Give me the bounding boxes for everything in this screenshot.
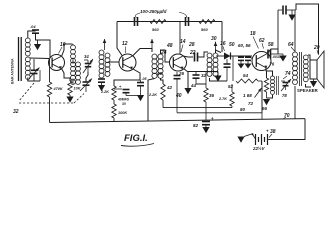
label 12 bbox=[122, 41, 128, 53]
resistor 54 bbox=[236, 73, 258, 83]
wire bbox=[161, 79, 164, 85]
svg-text:40MFD: 40MFD bbox=[118, 98, 130, 102]
switch bbox=[244, 133, 256, 139]
oscillator coil second column bbox=[76, 62, 81, 84]
wire bbox=[114, 69, 140, 86]
label 66 bbox=[262, 106, 268, 111]
svg-text:16: 16 bbox=[220, 41, 226, 47]
svg-text:74: 74 bbox=[285, 71, 291, 77]
wire bbox=[216, 50, 222, 53]
svg-text:46: 46 bbox=[156, 71, 163, 76]
trimmer 78 bbox=[281, 79, 291, 98]
wire bbox=[179, 22, 181, 54]
wire bbox=[308, 55, 310, 60]
wire bbox=[188, 71, 218, 73]
ground bbox=[214, 72, 221, 82]
svg-text:78: 78 bbox=[282, 93, 287, 98]
oscillator coil top bbox=[71, 44, 76, 63]
wire bbox=[117, 21, 222, 23]
label 24 bbox=[160, 50, 167, 56]
tuning slug arrow bbox=[103, 39, 107, 50]
diode 16 bbox=[216, 53, 252, 60]
wire bbox=[62, 44, 73, 57]
wire bbox=[62, 69, 71, 82]
label 62 bbox=[259, 38, 265, 49]
svg-text:72: 72 bbox=[248, 101, 254, 106]
label 20 bbox=[313, 45, 320, 55]
main bus bbox=[50, 119, 306, 123]
osc trimmer 32b bbox=[80, 72, 92, 92]
label SPEAKER bbox=[297, 88, 319, 93]
svg-text:82: 82 bbox=[193, 123, 199, 128]
wire bbox=[183, 56, 193, 57]
bypass cap 82 bbox=[193, 116, 214, 133]
transistor Q10 bbox=[49, 55, 65, 71]
ground bbox=[184, 88, 191, 94]
wire bbox=[117, 22, 122, 56]
svg-text:14: 14 bbox=[180, 39, 186, 45]
svg-text:100-250µµfd: 100-250µµfd bbox=[140, 9, 167, 14]
T2 bypass cap bbox=[98, 78, 105, 91]
label 64 bbox=[288, 42, 295, 51]
wire bbox=[161, 50, 170, 62]
capacitor C2 bbox=[186, 17, 189, 26]
ground bbox=[288, 10, 295, 21]
svg-text:50: 50 bbox=[229, 42, 235, 48]
svg-text:30: 30 bbox=[211, 36, 217, 42]
ground bbox=[310, 80, 317, 88]
wire bbox=[286, 9, 296, 11]
label 48 bbox=[166, 43, 173, 49]
wire bbox=[72, 79, 74, 85]
label 46 bbox=[156, 71, 163, 76]
svg-text:24: 24 bbox=[160, 50, 167, 56]
label 100-250uufd bbox=[135, 9, 187, 18]
cap .05 to ground bbox=[137, 77, 148, 101]
avc rail 2 bbox=[177, 112, 262, 114]
label 18 bbox=[250, 31, 259, 49]
label 10 bbox=[59, 42, 66, 54]
resistor 2.2K b bbox=[148, 84, 165, 108]
wire bbox=[28, 31, 36, 38]
ground bbox=[66, 97, 73, 103]
svg-text:.04: .04 bbox=[30, 24, 36, 29]
wire bbox=[277, 10, 279, 49]
IF transformer T3 bbox=[152, 54, 163, 78]
padder capacitor 34 bbox=[83, 54, 93, 73]
transistor Q18 bbox=[252, 52, 271, 71]
resistor 560a bbox=[150, 20, 166, 33]
label 14 bbox=[180, 39, 186, 52]
svg-text:34: 34 bbox=[84, 54, 89, 59]
svg-text:12: 12 bbox=[122, 41, 128, 47]
svg-text:10K: 10K bbox=[74, 87, 81, 91]
wire bbox=[267, 95, 273, 98]
wire bbox=[30, 57, 49, 60]
svg-text:32: 32 bbox=[13, 109, 19, 115]
resistor 560b bbox=[199, 20, 215, 33]
label 50 bbox=[229, 42, 235, 48]
wire bbox=[306, 84, 312, 87]
tuning capacitor 32a bbox=[29, 59, 40, 81]
avc rail 1 bbox=[163, 107, 232, 109]
tuning slug arrow bbox=[214, 42, 218, 50]
svg-text:38: 38 bbox=[270, 129, 276, 135]
antenna secondary coil L2 bbox=[25, 57, 30, 79]
svg-text:52: 52 bbox=[228, 84, 234, 89]
speaker 20 bbox=[310, 51, 324, 88]
ground bbox=[34, 40, 41, 50]
gang dashed link bbox=[19, 83, 84, 103]
transistor Q14 bbox=[170, 54, 187, 71]
collector cap .0033 bbox=[268, 50, 283, 60]
svg-text:60, 56: 60, 56 bbox=[238, 43, 251, 48]
wire bbox=[294, 86, 296, 119]
wire bbox=[232, 56, 234, 81]
label 80 bbox=[240, 107, 246, 112]
tuning slug arrow bbox=[150, 39, 154, 52]
label 26 bbox=[178, 71, 185, 76]
ground bbox=[263, 99, 270, 105]
resistor 36 bbox=[204, 72, 215, 121]
svg-text:42: 42 bbox=[166, 85, 173, 90]
label 40MFD 3V bbox=[118, 98, 130, 107]
resistor 2.7K bbox=[218, 56, 234, 108]
antenna primary coil L1 bbox=[25, 38, 30, 56]
label 16 bbox=[220, 41, 226, 51]
svg-text:560: 560 bbox=[152, 27, 159, 32]
svg-text:470K: 470K bbox=[53, 87, 63, 91]
emitter resistor 76 bbox=[264, 69, 268, 99]
wire bbox=[295, 10, 297, 52]
wire bbox=[296, 4, 319, 54]
svg-text:100K: 100K bbox=[118, 111, 127, 115]
svg-text:1 68: 1 68 bbox=[243, 93, 252, 98]
label 52 bbox=[228, 84, 234, 89]
oscillator coil bottom bbox=[71, 58, 76, 84]
label 60 56 bbox=[238, 43, 251, 48]
svg-text:76: 76 bbox=[270, 62, 275, 67]
wire bbox=[294, 11, 296, 53]
cap 52 bbox=[224, 59, 231, 81]
wire bbox=[267, 71, 273, 76]
driver coil 74 bbox=[271, 76, 279, 95]
wire bbox=[184, 69, 189, 89]
wire bbox=[28, 78, 40, 82]
coupling cap bbox=[283, 6, 286, 15]
label 32b bbox=[201, 73, 207, 78]
wire bbox=[248, 56, 252, 59]
IF transformer T4 bbox=[207, 53, 218, 76]
wire bbox=[221, 22, 223, 53]
ground bbox=[237, 137, 244, 143]
label 76b bbox=[270, 62, 275, 67]
output transformer 64 bbox=[293, 52, 309, 86]
svg-text:58: 58 bbox=[268, 42, 274, 48]
cap 44 bbox=[193, 72, 207, 85]
svg-text:80: 80 bbox=[240, 107, 246, 112]
svg-text:560: 560 bbox=[201, 27, 208, 32]
label 22 bbox=[189, 50, 196, 56]
wire bbox=[133, 49, 153, 57]
svg-text:54: 54 bbox=[243, 73, 249, 78]
label 40 bbox=[175, 93, 182, 99]
label 44 bbox=[190, 83, 197, 88]
resistor 10K bbox=[68, 81, 81, 97]
wire bbox=[267, 49, 278, 54]
wire bbox=[261, 113, 263, 119]
figure label bbox=[121, 133, 154, 146]
svg-text:+: + bbox=[266, 129, 269, 134]
battery 22.5V bbox=[252, 129, 269, 152]
neutralizing cap 28 bbox=[195, 53, 198, 62]
wire bbox=[278, 9, 282, 11]
label 28 bbox=[188, 42, 195, 48]
svg-text:22½V: 22½V bbox=[252, 146, 266, 151]
bar antenna label bbox=[11, 58, 15, 84]
volume pot 68 bbox=[243, 81, 262, 113]
emitter cap 42 bbox=[166, 72, 181, 113]
svg-text:36: 36 bbox=[209, 93, 215, 98]
svg-text:10: 10 bbox=[60, 42, 66, 48]
svg-text:BAR ANTENNA: BAR ANTENNA bbox=[11, 58, 15, 84]
svg-text:20: 20 bbox=[313, 45, 320, 51]
det cap 60 bbox=[238, 56, 245, 69]
svg-text:2.2K: 2.2K bbox=[148, 93, 157, 97]
label 38 bbox=[269, 129, 276, 138]
label 30 bbox=[211, 36, 217, 46]
svg-text:48: 48 bbox=[166, 43, 173, 49]
resistor 470K bbox=[47, 59, 63, 122]
wire bbox=[148, 79, 155, 122]
IF transformer T2 bbox=[99, 50, 110, 78]
svg-text:3V: 3V bbox=[122, 102, 127, 106]
svg-text:18: 18 bbox=[250, 31, 256, 37]
ferrite bar bbox=[19, 37, 22, 81]
bypass cap 40MFD bbox=[114, 84, 138, 96]
label 74 bbox=[283, 71, 291, 79]
label 70 bbox=[283, 113, 290, 119]
svg-text:66: 66 bbox=[262, 106, 268, 111]
resistor 2.2K bbox=[100, 86, 116, 104]
det cap 56 bbox=[245, 56, 252, 69]
transistor Q12 bbox=[119, 54, 136, 71]
wire bbox=[269, 119, 305, 140]
svg-text:40: 40 bbox=[175, 93, 182, 99]
wire bbox=[108, 61, 120, 63]
capacitor C1 bbox=[135, 17, 138, 26]
svg-text:28: 28 bbox=[188, 42, 195, 48]
wire bbox=[36, 33, 51, 58]
capacitor .04 bbox=[30, 24, 39, 33]
wire bbox=[210, 78, 228, 81]
resistor 100K bbox=[112, 104, 128, 121]
node label 32 bbox=[13, 109, 19, 115]
svg-text:2.7K: 2.7K bbox=[218, 97, 227, 101]
label 58 bbox=[268, 42, 274, 48]
svg-text:SPEAKER: SPEAKER bbox=[297, 88, 319, 93]
svg-text:44: 44 bbox=[190, 83, 197, 88]
wire bbox=[198, 52, 208, 57]
svg-text:FIG.I.: FIG.I. bbox=[124, 133, 148, 144]
ground bbox=[279, 54, 287, 62]
